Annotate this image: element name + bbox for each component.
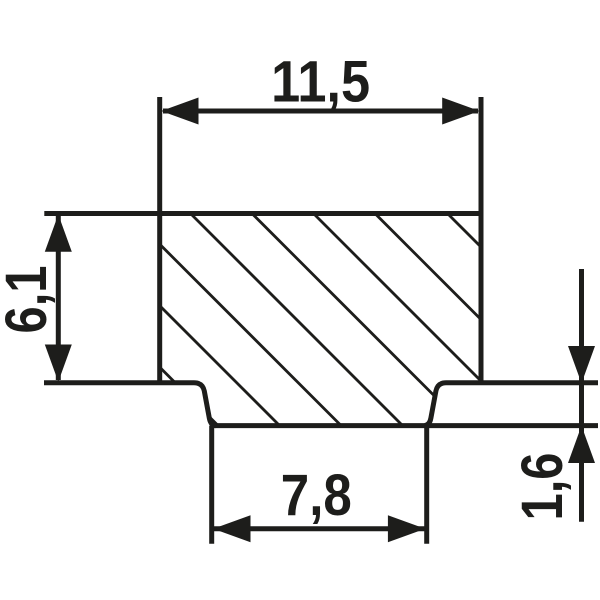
hatch line 6: [294, 194, 555, 455]
dimension line: [213, 526, 425, 531]
svg-text:6,1: 6,1: [0, 266, 59, 334]
dimension line crossing: [579, 383, 584, 426]
dimension line lower: [579, 426, 584, 522]
arrow up of 1,6: [568, 426, 595, 463]
svg-text:7,8: 7,8: [281, 463, 352, 528]
right shoulder + slant (with extension to x=598): [424, 383, 598, 426]
hatching (45-degree section lines): [0, 194, 600, 455]
hatch line 3: [109, 194, 370, 455]
hatch line 8: [428, 194, 600, 455]
hatch line 1: [0, 194, 247, 455]
right edge: [479, 211, 484, 383]
dimension line upper: [579, 269, 584, 383]
arrow up of 6,1: [45, 215, 72, 252]
hatch line 7: [355, 194, 600, 455]
arrow right of 7,8: [388, 515, 425, 542]
extension line right: [479, 97, 484, 214]
dimension 7,8: [212, 426, 427, 544]
bottom edge (extends right as extension line for 1,6): [212, 423, 598, 428]
left shoulder + slant (with extension to x=44): [44, 383, 216, 426]
dimension 1,6: [579, 269, 584, 522]
svg-text:11,5: 11,5: [271, 49, 370, 114]
hatch line 2: [48, 194, 309, 455]
left edge: [157, 211, 162, 383]
dimension 6,1: [44, 214, 159, 381]
extension line top (left of body): [44, 211, 159, 216]
arrow down of 1,6: [568, 346, 595, 383]
svg-text:1,6: 1,6: [510, 453, 575, 521]
extension line right: [424, 426, 429, 544]
dimension 11,5: [160, 97, 481, 214]
hatch line 5: [232, 194, 493, 455]
dimension line: [163, 109, 478, 114]
arrow left of 7,8: [213, 515, 250, 542]
profile outline: [44, 211, 598, 425]
extension line left: [209, 426, 214, 544]
hatch line 4: [171, 194, 432, 455]
arrow left of 11,5: [161, 98, 198, 125]
dimension line: [56, 216, 61, 380]
arrow right of 11,5: [442, 98, 479, 125]
top edge: [160, 211, 481, 216]
arrow down of 6,1: [45, 345, 72, 382]
extension line left: [157, 97, 162, 214]
